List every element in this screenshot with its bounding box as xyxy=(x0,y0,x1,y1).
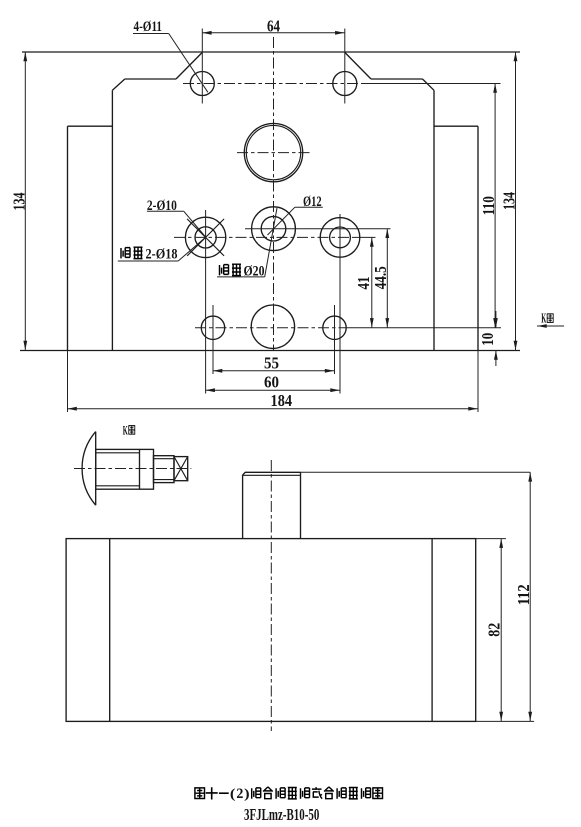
dim 112 line xyxy=(529,472,531,721)
dim 82 line xyxy=(500,539,502,722)
hole A2 top-right 4-Ø11 xyxy=(333,72,357,96)
label 2-Ø10 underline xyxy=(147,210,184,212)
svg-text:4-Ø11: 4-Ø11 xyxy=(134,19,163,35)
hole B1 middle-left 2-Ø10 counterbore xyxy=(185,217,225,257)
knob stem rect xyxy=(154,456,175,483)
plate top-right chamfer xyxy=(423,79,435,90)
caption 板 xyxy=(301,788,310,799)
hole B3 middle-right xyxy=(320,218,360,258)
dim 55 line xyxy=(213,370,335,372)
plate top-left chamfer xyxy=(112,79,124,90)
knob end cross diagonal 2 xyxy=(174,457,188,481)
dim 10 lower arrow segment xyxy=(495,351,497,367)
caption 流 xyxy=(362,788,371,799)
extension 184 right xyxy=(477,351,479,413)
plate bottom edge with extensions xyxy=(20,350,520,352)
K-view label 向 glyph xyxy=(129,426,135,434)
svg-text:55: 55 xyxy=(264,353,279,372)
dim 44.5 line xyxy=(386,229,388,328)
boss left edge xyxy=(242,475,244,539)
dim 134 right line xyxy=(515,52,517,351)
label 沉孔2-Ø18 leader xyxy=(178,238,205,261)
label 沉孔Ø20 glyph 沉 xyxy=(220,265,229,276)
boss right edge xyxy=(300,472,302,538)
svg-text:112: 112 xyxy=(514,584,533,605)
svg-text:10: 10 xyxy=(478,333,497,346)
caption 式 xyxy=(312,787,322,799)
left notch outer edge xyxy=(67,126,69,350)
main vertical centerline xyxy=(273,37,275,350)
dim 110 line xyxy=(494,84,496,328)
caption 调 xyxy=(276,788,285,799)
hole B2 center Ø12 counterbore Ø20 xyxy=(252,207,296,251)
label 沉孔2-Ø18 glyph 沉 xyxy=(121,248,130,259)
knob stem inner line top xyxy=(154,458,175,460)
body rect xyxy=(66,539,476,722)
label 沉孔Ø20 glyph 孔 xyxy=(232,264,241,275)
view direction arrow line xyxy=(537,325,564,327)
middle row horizontal centerline xyxy=(174,236,352,238)
plate right step edge xyxy=(433,90,435,350)
hole B3 vertical centerline + 60 extension xyxy=(339,214,341,394)
caption 十 xyxy=(206,787,218,799)
label 4-Ø11 underline xyxy=(133,33,169,35)
svg-text:110: 110 xyxy=(479,196,498,215)
knob cap flat face xyxy=(95,432,97,506)
svg-text:(: ( xyxy=(230,787,236,802)
knob body inner line top xyxy=(96,452,140,454)
body left step line xyxy=(109,539,111,722)
knob body divider xyxy=(139,449,141,489)
right notch outer edge xyxy=(477,126,479,350)
label 沉孔Ø20 underline xyxy=(217,276,265,278)
svg-text:60: 60 xyxy=(264,373,279,392)
knob end crossed square xyxy=(174,457,188,481)
hole C1 bottom-left Ø11 xyxy=(201,316,224,339)
label 4-Ø11 leader xyxy=(169,34,208,93)
label 沉孔Ø20 leader xyxy=(265,208,277,277)
caption 流 xyxy=(337,788,346,799)
label 2-Ø10 leader xyxy=(184,211,206,237)
svg-text:64: 64 xyxy=(267,16,280,35)
big port horizontal centerline xyxy=(237,152,310,154)
svg-text:134: 134 xyxy=(500,192,519,210)
svg-text:K: K xyxy=(123,422,128,437)
body right step line xyxy=(431,539,433,722)
label 沉孔2-Ø18 underline xyxy=(118,260,178,262)
top holes horizontal centerline xyxy=(183,83,362,85)
dim 60 line xyxy=(206,389,340,391)
caption 图 xyxy=(195,788,205,799)
knob stem inner line bottom xyxy=(154,479,175,481)
svg-text:3FJLmz-B10-50: 3FJLmz-B10-50 xyxy=(244,805,319,824)
label 沉孔2-Ø18 glyph 孔 xyxy=(134,247,143,258)
body bottom extension xyxy=(476,720,534,722)
hole A2 vertical centerline xyxy=(344,29,346,104)
caption 集 xyxy=(349,788,358,799)
plate top edge left xyxy=(125,78,176,80)
hole B1 cross diagonal 1 xyxy=(187,219,224,256)
bottom row horizontal centerline xyxy=(195,327,348,329)
dim 184 line xyxy=(68,408,479,410)
svg-text:2: 2 xyxy=(236,786,243,802)
hole A1 vertical centerline xyxy=(201,29,203,104)
hole C1 vertical centerline + 55 extension xyxy=(212,305,214,374)
boss top second line xyxy=(243,474,301,476)
svg-text:184: 184 xyxy=(271,391,293,410)
hole B1 cross diagonal 2 xyxy=(187,219,224,256)
boss centerline xyxy=(270,460,272,731)
view arrow label 向 glyph xyxy=(547,314,553,322)
hole C2 vertical centerline + 55 extension xyxy=(334,305,336,374)
caption 一 xyxy=(219,792,229,794)
big port circle inner xyxy=(246,125,300,179)
dim 64 line xyxy=(202,32,344,34)
right shoulder diagonal xyxy=(345,52,371,79)
knob end cross diagonal 1 xyxy=(174,457,188,481)
boss top edge with chamfer xyxy=(243,472,301,475)
plate top edge right xyxy=(371,78,423,80)
boss top extension line for 112 xyxy=(301,471,531,473)
caption 节 xyxy=(288,788,297,799)
plate left step edge xyxy=(111,90,113,350)
body top extension for 82 xyxy=(476,538,506,540)
bottom center port circle xyxy=(251,305,294,348)
hole B1 vertical centerline + 60 extension xyxy=(205,210,207,394)
dim 10 upper arrow segment xyxy=(495,311,497,328)
hole A1 top-left 4-Ø11 xyxy=(190,72,214,96)
right notch top edge xyxy=(434,125,478,127)
caption 分 xyxy=(324,787,334,799)
knob body rect xyxy=(96,449,154,489)
label Ø12 leader xyxy=(268,207,295,235)
extension 184 left xyxy=(67,351,69,413)
extension line 110 top xyxy=(362,83,501,85)
dim 134 left line xyxy=(24,52,26,351)
left shoulder diagonal xyxy=(176,52,202,79)
svg-text:K: K xyxy=(541,311,546,326)
svg-text:2-Ø18: 2-Ø18 xyxy=(146,246,178,262)
caption 合 xyxy=(263,787,273,799)
svg-text:134: 134 xyxy=(9,192,28,210)
svg-text:): ) xyxy=(244,787,250,802)
extension line 110/10 bottom xyxy=(348,327,501,329)
caption 组 xyxy=(252,788,261,799)
hole B2 horizontal centerline + 44.5 extension xyxy=(245,228,391,230)
svg-text:82: 82 xyxy=(485,623,504,637)
extension line 41 xyxy=(352,236,376,238)
knob body inner line bottom xyxy=(96,485,140,487)
dim 41 line xyxy=(371,237,373,327)
big port circle outer xyxy=(244,123,302,181)
label Ø12 underline xyxy=(295,206,323,208)
body top edge with extension line xyxy=(22,51,520,53)
knob cap arc xyxy=(82,432,96,506)
svg-text:44.5: 44.5 xyxy=(371,266,390,289)
caption 阀 xyxy=(373,788,383,799)
knob centerline xyxy=(74,468,191,470)
hole C2 bottom-right Ø11 xyxy=(323,316,346,339)
left notch top edge xyxy=(68,125,113,127)
